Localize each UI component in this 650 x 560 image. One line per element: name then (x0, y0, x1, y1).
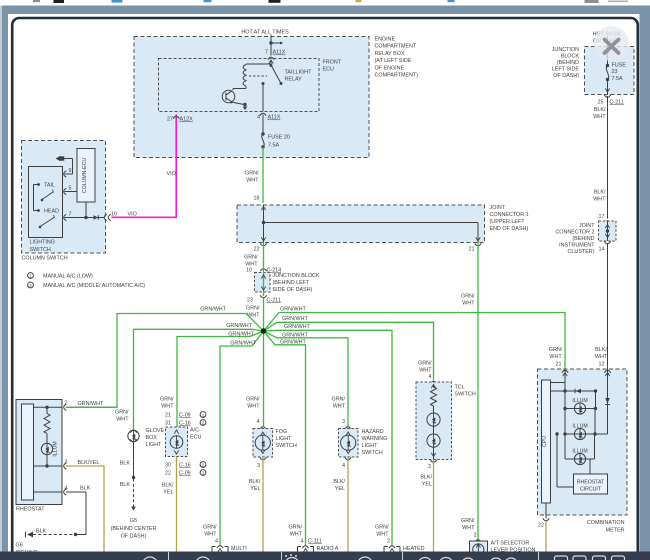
svg-text:GRN/: GRN/ (549, 347, 563, 353)
svg-text:GRN/: GRN/ (246, 397, 260, 403)
pin 4 A11X (257, 113, 281, 120)
svg-text:A11X: A11X (268, 115, 281, 121)
svg-text:(BEHIND LEFT: (BEHIND LEFT (273, 280, 311, 286)
svg-text:GRN/: GRN/ (461, 518, 475, 524)
wire BLK/YEL from fog switch (249, 457, 263, 552)
label HOT AT ALL TIMES (241, 30, 289, 36)
svg-text:(AT LEFT SIDE: (AT LEFT SIDE (375, 58, 412, 64)
svg-text:GRN/WHT: GRN/WHT (284, 324, 310, 330)
svg-text:GRN/WHT: GRN/WHT (228, 332, 254, 338)
a/c ecu lamp (170, 436, 183, 454)
label JOINT CONNECTOR 2 (BEHIND INSTRUMENT CLUSTER) (555, 223, 595, 255)
label junction block (273, 273, 320, 293)
a/c ecu wire into box (176, 412, 178, 428)
svg-text:JOINT: JOINT (490, 205, 506, 211)
pin 7 wire (65, 202, 105, 219)
svg-text:COLUMN-ECU: COLUMN-ECU (82, 158, 88, 193)
label TAILLIGHT RELAY (285, 70, 313, 83)
svg-text:CPU: CPU (542, 436, 548, 447)
svg-text:(BEHIND CENTER: (BEHIND CENTER (111, 526, 157, 532)
svg-text:A11X: A11X (273, 50, 286, 56)
joint connector 2 (599, 221, 617, 241)
heated connector (cut off) (375, 525, 425, 553)
svg-text:SWITCH: SWITCH (276, 443, 297, 449)
svg-text:YEL: YEL (422, 482, 432, 488)
fog light switch labels (246, 397, 260, 426)
svg-text:YEL: YEL (163, 490, 173, 496)
svg-text:COMBINATION: COMBINATION (587, 520, 625, 526)
wire pin 9 to ground (65, 159, 73, 175)
tcl lamp 2 (427, 426, 440, 459)
rheostat mid rail (34, 455, 63, 468)
svg-text:C-111: C-111 (308, 539, 322, 545)
svg-text:HOT AT ALL TIMES: HOT AT ALL TIMES (241, 30, 289, 36)
wire into fuse 23 (605, 36, 609, 66)
wire branch to combination meter (264, 307, 566, 370)
svg-text:WHT: WHT (595, 354, 608, 360)
svg-text:7: 7 (69, 212, 72, 218)
svg-text:GRN/: GRN/ (245, 171, 259, 177)
svg-text:1: 1 (29, 273, 32, 278)
fuse 23 7.5A (606, 63, 626, 82)
svg-text:2: 2 (65, 401, 68, 407)
taillight relay coil (243, 64, 271, 89)
svg-text:BLK/: BLK/ (333, 479, 345, 485)
column switch box (22, 141, 106, 254)
pins 22 and 21 of joint connector 1 (254, 243, 482, 252)
svg-text:31: 31 (165, 421, 171, 427)
splice node (261, 328, 266, 333)
label COLUMN SWITCH (22, 256, 68, 262)
label LIGHTING SWITCH (30, 240, 55, 254)
svg-text:4: 4 (65, 486, 68, 492)
column-ECU box (77, 149, 95, 203)
svg-text:17: 17 (599, 214, 605, 220)
glove box light lamp (128, 430, 139, 442)
diode toward pin 10 (94, 215, 99, 220)
svg-text:(BEHIND: (BEHIND (557, 60, 579, 66)
svg-text:WHT: WHT (290, 532, 303, 538)
switch blade tail (41, 190, 54, 202)
wire: relay output to pin 4 (262, 82, 265, 112)
svg-text:A/T SELECTOR: A/T SELECTOR (491, 541, 530, 547)
svg-text:GRN/WHT: GRN/WHT (280, 307, 306, 313)
svg-text:CLUSTER): CLUSTER) (568, 249, 595, 255)
pin labels 21 and 12 (549, 347, 611, 376)
svg-text:HEATED: HEATED (403, 546, 425, 552)
svg-text:1: 1 (202, 412, 205, 417)
joint connector 2 pin 17 (599, 214, 611, 223)
svg-text:FUSE: FUSE (612, 63, 627, 69)
svg-text:2: 2 (202, 420, 205, 425)
wire branch to multi-connector (220, 331, 264, 541)
label A/T SELECTOR LEVER POSITION (491, 541, 536, 554)
svg-text:GRN/WHT: GRN/WHT (282, 316, 308, 322)
wire GRN/WHT to C-214 (244, 243, 263, 268)
svg-text:30: 30 (165, 463, 171, 469)
rheostat illumination lamp (41, 441, 58, 456)
svg-text:G5: G5 (130, 518, 137, 524)
svg-text:4: 4 (257, 419, 260, 425)
wire VIO from pin 10 to relay pin 27 (112, 115, 177, 218)
svg-text:22: 22 (254, 247, 260, 253)
rheostat inner element (22, 404, 34, 500)
svg-text:BLK/YEL: BLK/YEL (78, 460, 100, 466)
ground G5 (111, 518, 157, 540)
svg-text:COMPARTMENT): COMPARTMENT) (375, 73, 419, 79)
rheostat pin 3 (64, 460, 68, 470)
rheostat pin 2 (64, 401, 68, 411)
svg-text:4: 4 (215, 539, 218, 545)
svg-text:2: 2 (474, 533, 477, 539)
svg-text:FRONT: FRONT (323, 60, 342, 66)
svg-text:3: 3 (65, 460, 68, 466)
svg-text:BLK: BLK (80, 486, 91, 492)
svg-text:10: 10 (246, 268, 252, 274)
svg-text:BLOCK: BLOCK (561, 54, 580, 60)
svg-text:YEL: YEL (335, 486, 345, 492)
glove box light labels (115, 410, 129, 423)
svg-text:LIGHTING: LIGHTING (30, 240, 55, 246)
svg-text:5: 5 (69, 186, 72, 192)
multi-connector (cut off at bottom) (203, 525, 247, 553)
wire branch to a/c ecu (177, 331, 264, 412)
svg-text:RHEOSTAT: RHEOSTAT (577, 480, 605, 486)
cpu box (542, 380, 551, 503)
svg-text:RELAY: RELAY (285, 77, 303, 83)
wire GRN/WHT joint connector1 pin21 to a/t selector (461, 243, 478, 539)
a/t selector pin 2 (474, 533, 482, 543)
svg-text:GRN/WHT: GRN/WHT (200, 307, 226, 313)
combination meter box (538, 369, 628, 515)
svg-text:GRN/: GRN/ (203, 525, 217, 531)
taskbar (cut off at bottom) (0, 552, 650, 560)
ground G6 (16, 532, 38, 556)
svg-text:LIGHT: LIGHT (276, 436, 293, 442)
svg-text:C-211: C-211 (610, 100, 624, 106)
pin 7 A11X (265, 50, 286, 60)
svg-text:GRN/WHT: GRN/WHT (280, 340, 306, 346)
svg-text:GRN/: GRN/ (160, 397, 174, 403)
svg-text:VIO: VIO (128, 211, 137, 217)
svg-text:WHT: WHT (593, 197, 606, 203)
relay switch (270, 64, 283, 85)
connector C-214 pin 10 (246, 268, 281, 274)
svg-text:OF DASH): OF DASH) (121, 534, 147, 540)
svg-text:WHT: WHT (116, 417, 129, 423)
junction block fuse box (585, 47, 635, 95)
svg-text:COLUMN SWITCH: COLUMN SWITCH (22, 256, 68, 262)
svg-text:OF ENGINE: OF ENGINE (375, 65, 405, 71)
tcl switch box (416, 381, 452, 459)
svg-text:CONNECTOR 2: CONNECTOR 2 (555, 230, 594, 236)
wire branch down to fog light switch (263, 331, 265, 426)
a/c ecu pin labels bottom (165, 462, 206, 477)
relay mechanical link (dashed) (249, 75, 267, 77)
connector C-211 pin 25 (598, 95, 624, 106)
rheostat box (16, 400, 62, 505)
illum lamp 3 (565, 434, 595, 465)
svg-text:BLK: BLK (36, 529, 47, 535)
svg-text:INSTRUMENT: INSTRUMENT (559, 243, 595, 249)
hazard switch labels (332, 397, 346, 426)
svg-text:END OF DASH): END OF DASH) (490, 226, 529, 232)
wire BLK/YEL from tcl switch (420, 460, 433, 552)
wire branch to rheostat (66, 307, 264, 408)
svg-text:7: 7 (265, 50, 268, 56)
label JUNCTION BLOCK (BEHIND LEFT SIDE OF DASH) (552, 47, 580, 79)
svg-text:1: 1 (202, 470, 205, 475)
pin 27 A12X (167, 116, 193, 122)
svg-text:GRN/: GRN/ (244, 255, 258, 261)
legend note 2 (28, 282, 146, 289)
wire BLK/YEL from hazard switch (333, 457, 348, 552)
svg-text:4: 4 (301, 539, 304, 545)
lighting switch box (29, 167, 63, 238)
label FRONT ECU (323, 60, 342, 73)
label COMBINATION METER (587, 520, 625, 534)
junction block pass-through (255, 267, 271, 296)
svg-text:COMPARTMENT: COMPARTMENT (375, 44, 417, 50)
tail contact (34, 183, 55, 189)
svg-text:3: 3 (342, 419, 345, 425)
svg-text:7.5A: 7.5A (268, 143, 279, 149)
svg-text:LIGHT: LIGHT (146, 442, 163, 448)
svg-text:BLK/: BLK/ (420, 475, 432, 481)
a/c ecu pin labels top (160, 397, 206, 427)
svg-text:GRN/: GRN/ (289, 525, 303, 531)
svg-text:CONNECTOR 1: CONNECTOR 1 (490, 212, 529, 218)
wire GRN/WHT to splice node (246, 297, 263, 331)
svg-text:LEFT SIDE: LEFT SIDE (552, 67, 580, 73)
tcl resistor (431, 385, 437, 414)
svg-text:SWITCH: SWITCH (362, 450, 383, 456)
svg-text:YEL: YEL (250, 486, 260, 492)
illum lamp 2 (563, 409, 607, 440)
svg-text:WHT: WHT (462, 301, 475, 307)
wire into front ECU (269, 60, 273, 64)
svg-text:ILLUM: ILLUM (53, 441, 59, 456)
front ECU box (159, 59, 320, 112)
svg-text:SWITCH: SWITCH (455, 392, 476, 398)
fog light switch box (253, 427, 273, 457)
hazard switch box (339, 427, 359, 457)
svg-text:GRN/WHT: GRN/WHT (282, 333, 308, 339)
wire pin4 to fuse (262, 115, 264, 134)
wire GRN/WHT into rheostat pin2 (66, 406, 117, 408)
svg-text:C-09: C-09 (179, 413, 191, 419)
toolbar strip fragments (top of window, cut off) (33, 0, 628, 3)
label HAZARD WARNING LIGHT SWITCH (362, 429, 388, 456)
wire branch to hazard switch (264, 331, 349, 426)
svg-text:HAZARD: HAZARD (362, 429, 384, 435)
svg-text:JUNCTION: JUNCTION (552, 47, 579, 53)
svg-text:2: 2 (202, 462, 205, 467)
svg-text:C-09: C-09 (179, 471, 191, 477)
svg-text:GRN/WHT: GRN/WHT (230, 341, 256, 347)
tcl pin 3 (428, 460, 437, 470)
tcl switch labels (418, 361, 432, 381)
svg-text:MULTI: MULTI (231, 546, 247, 552)
svg-text:C-211: C-211 (267, 298, 281, 304)
svg-text:WHT: WHT (247, 313, 260, 319)
svg-text:WHT: WHT (333, 404, 346, 410)
svg-text:2: 2 (29, 283, 32, 288)
svg-text:FOG: FOG (276, 429, 288, 435)
pin 5 wire to column-ECU (65, 191, 78, 193)
meter column from pin 12 with diode (605, 369, 610, 434)
wire BLK from glove box light to ground G5 (120, 443, 136, 511)
radio connector C-111 (cut off) (289, 525, 339, 553)
wire BLK/WHT down right side (593, 96, 607, 219)
joint connector 2 pin 14 (599, 241, 611, 252)
svg-text:TAIL: TAIL (44, 183, 55, 189)
svg-text:14: 14 (599, 247, 605, 253)
svg-text:FUSE 20: FUSE 20 (268, 135, 290, 141)
svg-text:WHT: WHT (549, 354, 562, 360)
legend note 1 (28, 273, 93, 280)
combination meter pin 22 (538, 503, 549, 529)
wire BLK/YEL from combination meter (545, 521, 547, 552)
svg-text:WHT: WHT (246, 178, 259, 184)
fog light switch lamp (255, 432, 270, 454)
svg-text:GRN/: GRN/ (115, 410, 129, 416)
label GLOVE BOX LIGHT (146, 428, 165, 448)
svg-text:23: 23 (612, 69, 618, 75)
svg-text:GRN/: GRN/ (375, 525, 389, 531)
engine compartment relay box (134, 37, 369, 158)
svg-text:(UPPER LEFT: (UPPER LEFT (490, 219, 526, 225)
svg-text:WHT: WHT (161, 404, 174, 410)
wire branch to heated connector (264, 324, 393, 541)
rheostat top rail (34, 406, 63, 409)
label HOT IN ON OR START (593, 32, 621, 45)
label joint connector 1 (490, 205, 529, 232)
svg-text:25: 25 (598, 100, 604, 106)
svg-text:G6: G6 (16, 543, 23, 549)
rheostat resistor (44, 407, 50, 443)
svg-text:GLOVE: GLOVE (146, 428, 165, 434)
meter wiring from pin 21 (551, 369, 566, 409)
ground in column switch (56, 156, 65, 161)
svg-text:12: 12 (599, 362, 605, 368)
transistor Q (relay driver) (222, 89, 247, 111)
wire BLK/YEL from rheostat pin3 (66, 460, 104, 552)
svg-text:ECU: ECU (323, 67, 334, 73)
svg-text:GRN/: GRN/ (246, 306, 260, 312)
head contact (34, 185, 60, 215)
label RHEOSTAT (16, 507, 45, 513)
svg-text:WHT: WHT (247, 404, 260, 410)
wire BLK/WHT to combination meter (607, 243, 609, 370)
svg-text:GRN/WHT: GRN/WHT (78, 401, 104, 407)
svg-text:RADIO A: RADIO A (317, 546, 339, 552)
wire out of junction block (605, 80, 609, 95)
svg-text:BLK/: BLK/ (594, 107, 606, 113)
fuse 20 7.5A (261, 132, 290, 148)
label TCL SWITCH (455, 385, 476, 398)
svg-text:LIGHT: LIGHT (362, 443, 379, 449)
svg-text:HEAD: HEAD (44, 209, 59, 215)
svg-text:23: 23 (247, 298, 253, 304)
svg-text:TCL: TCL (455, 385, 465, 391)
wire branch to glove box light (134, 323, 264, 430)
svg-text:BOX: BOX (146, 435, 158, 441)
svg-text:C-16: C-16 (179, 421, 191, 427)
svg-text:BLK/: BLK/ (162, 483, 174, 489)
svg-text:MANUAL A/C (LOW): MANUAL A/C (LOW) (43, 274, 93, 280)
wire BLK from rheostat pin4 to ground G6 (33, 486, 91, 537)
close button overlay (594, 26, 629, 61)
pin 10 connector at box edge (104, 212, 117, 221)
rheostat low rail (34, 491, 63, 493)
svg-text:WHT: WHT (419, 368, 432, 374)
svg-text:ECU: ECU (190, 435, 201, 441)
svg-text:9: 9 (69, 168, 72, 174)
label FOG LIGHT SWITCH (276, 429, 297, 449)
wire BLK/YEL from a/c ecu (162, 457, 177, 552)
rheostat circuit box (555, 432, 607, 494)
svg-text:3: 3 (257, 463, 260, 469)
svg-text:BLK: BLK (120, 461, 131, 467)
svg-text:GRN/: GRN/ (332, 397, 346, 403)
svg-text:BLK/: BLK/ (249, 479, 261, 485)
svg-text:ENGINE: ENGINE (375, 37, 396, 43)
svg-text:BLK: BLK (120, 482, 131, 488)
svg-text:OF DASH): OF DASH) (553, 73, 579, 79)
a/c ecu box (166, 427, 188, 457)
svg-text:18: 18 (254, 196, 260, 202)
meter rail 1 with diode (551, 389, 598, 394)
rheostat pin 4 (64, 486, 68, 496)
svg-text:WHT: WHT (204, 532, 217, 538)
svg-text:GRN/: GRN/ (418, 361, 432, 367)
svg-text:27: 27 (167, 117, 173, 123)
svg-text:RELAY BOX: RELAY BOX (375, 51, 405, 57)
pin 7 (64, 212, 72, 221)
svg-text:SWITCH: SWITCH (30, 247, 51, 253)
svg-text:WHT: WHT (593, 114, 606, 120)
svg-text:WHT: WHT (462, 525, 475, 531)
svg-text:22: 22 (165, 471, 171, 477)
connector C-211 pin 23 (247, 295, 281, 303)
svg-text:(BEHIND: (BEHIND (572, 236, 594, 242)
svg-text:BLK/: BLK/ (595, 347, 607, 353)
svg-text:21: 21 (165, 413, 171, 419)
svg-text:A/C-: A/C- (190, 428, 201, 434)
fog switch pin 3 (257, 457, 266, 469)
svg-text:C-16: C-16 (179, 463, 191, 469)
wire branch to radio connector (264, 331, 307, 541)
wire: hot feed into relay box (269, 35, 283, 56)
svg-text:21: 21 (469, 247, 475, 253)
wire branch to TCL switch (264, 316, 434, 381)
a/t selector lever position switch (470, 541, 488, 560)
svg-text:RHEOSTAT: RHEOSTAT (16, 507, 45, 513)
svg-text:VIO: VIO (167, 171, 176, 177)
svg-text:4: 4 (342, 463, 345, 469)
wire GRN/WHT fuse20 to joint connector 1 (245, 147, 263, 203)
tcl lamp 1 (427, 413, 440, 426)
svg-text:CIRCUIT: CIRCUIT (580, 487, 602, 493)
svg-text:JUNCTION BLOCK: JUNCTION BLOCK (273, 273, 320, 279)
svg-text:WARNING: WARNING (362, 436, 388, 442)
svg-text:2: 2 (387, 539, 390, 545)
svg-text:GRN/WHT: GRN/WHT (226, 323, 252, 329)
svg-text:GRN/: GRN/ (461, 294, 475, 300)
illum lamp 1 (563, 391, 597, 414)
label A/C-ECU (190, 428, 201, 441)
